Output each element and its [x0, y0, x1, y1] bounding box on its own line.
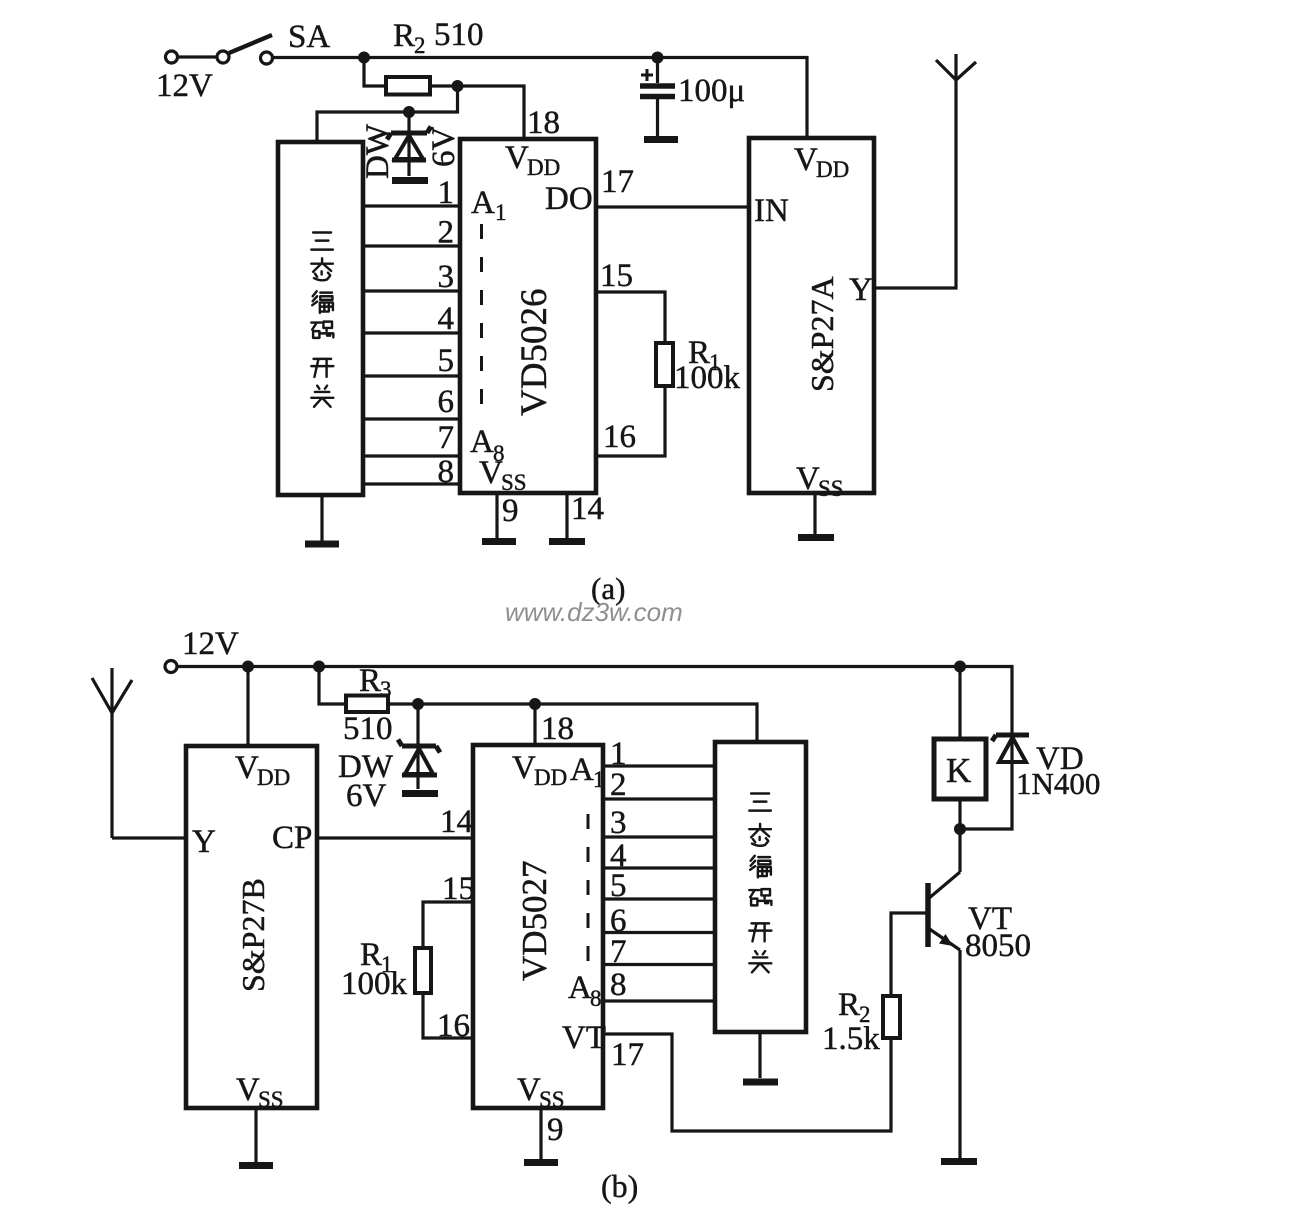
wire: rail to relay K: [958, 667, 961, 740]
node: pin18 junction (b): [529, 698, 541, 710]
svg-text:2: 2: [610, 767, 627, 803]
svg-text:5: 5: [610, 868, 627, 904]
svg-text:18: 18: [541, 711, 574, 747]
wire pin 7 (b): [603, 934, 715, 970]
svg-text:VD5026: VD5026: [514, 289, 555, 416]
svg-text:510: 510: [434, 17, 484, 53]
wire pin 1 (b): [603, 736, 715, 772]
svg-text:SS: SS: [539, 1087, 565, 1112]
wire pin 3 (a): [363, 259, 460, 295]
wire R1 to pin 16: [596, 386, 665, 456]
svg-text:V: V: [794, 142, 818, 178]
svg-text:16: 16: [603, 419, 636, 455]
wire: collector up to relay junction: [958, 829, 961, 872]
label DW (rotated): [360, 123, 396, 179]
svg-text:8: 8: [590, 986, 602, 1011]
svg-text:3: 3: [380, 677, 392, 702]
RF module U3 S&P27B: [186, 746, 317, 1112]
svg-text:2: 2: [414, 33, 426, 58]
node: zener junction (b): [412, 698, 424, 710]
wire pin 6 (b): [603, 903, 715, 939]
resistor R2 1.5k (b): [822, 987, 900, 1057]
svg-text:1N400: 1N400: [1016, 766, 1100, 801]
tri-state coding switch box (b): [715, 742, 806, 1032]
svg-text:DD: DD: [257, 765, 290, 790]
ground below zener DW: [392, 177, 428, 184]
wire pin 8 (a): [363, 454, 460, 490]
capacitor C1 100u electrolytic: [640, 58, 745, 137]
svg-text:S&P27B: S&P27B: [235, 878, 271, 992]
svg-text:V: V: [236, 1072, 260, 1108]
svg-text:15: 15: [600, 258, 633, 294]
node: zener top junction: [403, 106, 415, 118]
wire pin 7 (a): [363, 420, 460, 456]
svg-text:V: V: [796, 461, 820, 497]
svg-text:SA: SA: [288, 19, 330, 55]
svg-text:100k: 100k: [674, 360, 741, 396]
transistor VT 8050: [928, 872, 1031, 964]
wire: R2 output to VD5026 pin 18: [430, 86, 524, 139]
ground below S&P27A: [798, 493, 834, 538]
wire: rail to S&P27B VDD: [246, 667, 249, 747]
12V supply terminal label: [156, 68, 213, 104]
svg-text:S&P27A: S&P27A: [804, 276, 840, 392]
wire: junction down-left to coding switch box top: [317, 86, 458, 142]
wire: emitter down to ground: [958, 950, 961, 1158]
svg-text:V: V: [505, 140, 529, 176]
svg-text:R: R: [393, 18, 415, 54]
zener diode DW 6V (b): [338, 704, 440, 814]
svg-text:R: R: [838, 987, 860, 1023]
wire: main 12V rail (b): [177, 667, 1012, 738]
svg-text:8050: 8050: [965, 928, 1031, 964]
svg-text:3: 3: [610, 805, 627, 841]
svg-text:DW: DW: [360, 123, 396, 179]
12V terminal circle (b): [165, 661, 177, 673]
wire Y output to antenna (a): [874, 54, 956, 288]
svg-text:DD: DD: [816, 157, 849, 182]
resistor R2 510: [386, 17, 484, 95]
IC U4 VD5027 decoder: [473, 745, 606, 1112]
wire pin 2 (b): [603, 767, 715, 803]
wire pin 3 (b): [603, 805, 715, 841]
wire: VT pin 17 to R2 (b): [603, 1034, 891, 1131]
node: rail junction above S&P27B: [242, 661, 254, 673]
svg-text:1: 1: [495, 200, 507, 225]
svg-text:100μ: 100μ: [678, 73, 745, 109]
wire: relay K bottom to collector junction: [958, 799, 961, 829]
wire: drop to resistor R2: [364, 58, 386, 87]
antenna (a): [936, 60, 976, 80]
caption (b): [601, 1168, 638, 1204]
wire pin 6 (a): [363, 384, 460, 420]
svg-text:A: A: [568, 970, 592, 1006]
svg-text:VD5027: VD5027: [515, 860, 554, 981]
svg-text:17: 17: [601, 164, 634, 200]
svg-text:8: 8: [610, 967, 627, 1003]
svg-text:12V: 12V: [182, 626, 239, 662]
svg-text:www.dz3w.com: www.dz3w.com: [505, 597, 683, 627]
svg-text:8: 8: [438, 454, 455, 490]
wire pin 2 (a): [363, 215, 460, 251]
svg-text:510: 510: [343, 711, 393, 747]
ground below transistor emitter: [941, 1158, 977, 1165]
wire pin 5 (b): [603, 868, 715, 904]
wire pin 4 (b): [603, 838, 715, 874]
wire pin 5 (a): [363, 343, 460, 379]
pin 18 label: [527, 105, 560, 141]
ground below S&P27B: [239, 1108, 273, 1166]
svg-text:SS: SS: [818, 476, 844, 501]
wire: R3 to coding box top (b): [388, 704, 757, 742]
wire pin 15 to R1: [596, 258, 665, 343]
wire pin 8 (b): [603, 967, 715, 1003]
tri-state coding switch box (a): [278, 142, 363, 495]
svg-text:7: 7: [438, 420, 455, 456]
node: rail junction at switch output: [358, 52, 370, 64]
wire R1 to pin 16 (b): [423, 993, 473, 1044]
RF module U2 S&P27A: [749, 138, 874, 501]
node: junction below relay K: [954, 823, 966, 835]
resistor R1 100k (a): [656, 335, 741, 396]
svg-text:5: 5: [438, 343, 455, 379]
svg-text:14: 14: [440, 804, 473, 840]
node: rail junction above relay K: [954, 661, 966, 673]
svg-text:17: 17: [611, 1037, 644, 1073]
svg-text:14: 14: [571, 491, 604, 527]
switch SA: [166, 19, 331, 64]
svg-text:A: A: [471, 185, 495, 221]
wire: rail drop to R3: [319, 667, 346, 705]
svg-text:16: 16: [437, 1008, 470, 1044]
svg-text:1: 1: [438, 175, 455, 211]
relay K: [934, 739, 986, 799]
svg-text:3: 3: [438, 259, 455, 295]
node: rail junction above R3: [313, 661, 325, 673]
wire: SA to VDD rail of circuit a: [273, 58, 807, 139]
svg-text:7: 7: [610, 934, 627, 970]
svg-text:2: 2: [438, 215, 455, 251]
svg-text:K: K: [946, 751, 971, 790]
svg-text:15: 15: [442, 871, 475, 907]
svg-text:IN: IN: [754, 193, 789, 229]
wire pin 4 (a): [363, 301, 460, 337]
svg-text:18: 18: [527, 105, 560, 141]
wire DO pin17 to IN: [596, 164, 749, 207]
zener diode DW 6V: [387, 112, 431, 176]
svg-text:V: V: [479, 455, 503, 491]
svg-text:Y: Y: [849, 272, 873, 308]
svg-text:1: 1: [593, 767, 605, 792]
svg-text:SS: SS: [501, 470, 527, 495]
svg-text:4: 4: [438, 301, 455, 337]
svg-text:DD: DD: [534, 765, 567, 790]
svg-text:(b): (b): [601, 1168, 638, 1204]
svg-text:9: 9: [502, 493, 519, 529]
wire: pin 18 stub (b): [535, 704, 574, 747]
wire: R2 to transistor base: [891, 913, 926, 996]
wire pin 1 (a): [363, 175, 460, 211]
caption (a): [591, 571, 625, 606]
wire: antenna to Y input (b): [112, 836, 186, 839]
svg-text:SS: SS: [258, 1087, 284, 1112]
ground below zener DW (b): [402, 790, 438, 797]
node: capacitor junction on rail: [652, 52, 664, 64]
antenna (b): [92, 668, 132, 838]
svg-text:A: A: [570, 752, 594, 788]
ground below coding switch box (b): [743, 1032, 778, 1082]
svg-text:6V: 6V: [346, 778, 387, 814]
svg-text:V: V: [235, 750, 259, 786]
ground pin 14 of VD5026: [549, 491, 604, 542]
svg-text:100k: 100k: [341, 966, 408, 1002]
resistor R3 510: [343, 663, 393, 747]
IC U1 VD5026 encoder: [460, 139, 596, 495]
wire: CP to VD5027 pin 14: [317, 804, 473, 840]
12V supply terminal label (b): [182, 626, 239, 662]
ground below coding switch box (a): [305, 495, 339, 544]
svg-text:6V: 6V: [426, 127, 462, 168]
svg-text:9: 9: [547, 1112, 564, 1148]
svg-text:V: V: [517, 1072, 541, 1108]
svg-text:DD: DD: [527, 155, 560, 180]
svg-text:CP: CP: [272, 820, 312, 856]
resistor R1 100k (b): [341, 937, 431, 1002]
svg-text:VT: VT: [562, 1020, 606, 1056]
svg-text:Y: Y: [192, 824, 216, 860]
watermark: [505, 597, 683, 627]
label 6V (rotated): [426, 127, 462, 168]
diode VD 1N400: [960, 735, 1100, 829]
svg-text:12V: 12V: [156, 68, 213, 104]
node: junction right of R2: [452, 80, 464, 92]
svg-text:V: V: [512, 750, 536, 786]
ground below capacitor: [644, 136, 678, 143]
svg-text:R: R: [359, 663, 381, 699]
ground pin 9 of VD5027: [524, 1108, 564, 1163]
ground pin 9 of VD5026: [482, 493, 519, 542]
wire: pin 15 to R1 (b): [423, 871, 475, 948]
svg-text:6: 6: [438, 384, 455, 420]
svg-text:1.5k: 1.5k: [822, 1021, 880, 1057]
svg-text:DO: DO: [545, 181, 593, 217]
